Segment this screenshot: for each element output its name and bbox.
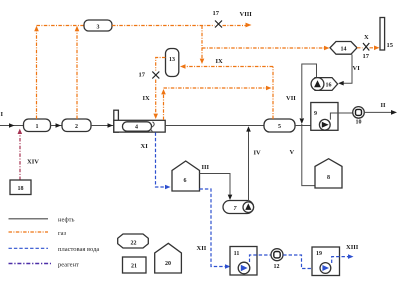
- valve 17 (mid): [139, 72, 160, 79]
- gas wire 13 outlet to valve: [156, 58, 166, 71]
- svg-text:VIII: VIII: [240, 11, 253, 18]
- svg-text:V: V: [290, 149, 295, 156]
- svg-text:I: I: [1, 111, 4, 118]
- junction arrow into 2: [56, 123, 62, 128]
- node I arrowhead: [9, 123, 15, 128]
- wire 1 to 2: [51, 125, 63, 127]
- vessel 1: [24, 119, 51, 132]
- meter 12: [271, 249, 283, 270]
- legend water line: [9, 247, 49, 249]
- junction arrow down into 4: [153, 114, 158, 119]
- gas branch wire to vessel 14: [202, 47, 325, 49]
- wire 9 outlet to 10: [330, 113, 352, 120]
- gas header wire 3 to valve 17: [112, 25, 215, 27]
- wire 16 outlet VII down to main line: [302, 64, 317, 118]
- svg-text:III: III: [202, 164, 210, 171]
- water wire XI from 4 to tank 6: [156, 133, 166, 188]
- svg-text:22: 22: [131, 241, 137, 247]
- junction arrow down: [200, 59, 205, 64]
- legend gas line: [9, 231, 49, 233]
- svg-text:VI: VI: [353, 65, 361, 72]
- svg-text:XI: XI: [141, 143, 149, 150]
- water wire XII from 6 to pump 11: [200, 189, 226, 267]
- svg-text:X: X: [364, 34, 369, 41]
- svg-text:II: II: [381, 102, 387, 109]
- water wire 12 to pump 19: [283, 255, 313, 269]
- junction arrow into 14: [324, 46, 330, 51]
- wire III from 6 to vessel 7: [200, 174, 231, 196]
- svg-text:XIII: XIII: [346, 244, 359, 251]
- legend reagent line: [9, 263, 52, 265]
- gas wire valve to flare 15: [370, 47, 375, 49]
- svg-text:1: 1: [36, 124, 39, 130]
- junction arrow down into 7: [228, 195, 233, 200]
- svg-text:11: 11: [234, 251, 240, 257]
- vessel 13: [166, 49, 179, 77]
- svg-text:19: 19: [316, 251, 322, 257]
- svg-text:3: 3: [97, 25, 100, 31]
- vessel 7 with pump: [223, 201, 254, 214]
- svg-text:6: 6: [184, 178, 187, 184]
- svg-text:4: 4: [135, 125, 138, 131]
- junction arrow into 6: [165, 185, 171, 190]
- svg-text:10: 10: [356, 120, 362, 126]
- svg-text:17: 17: [213, 10, 220, 17]
- junction arrow up into header: [34, 26, 39, 31]
- svg-text:2: 2: [75, 124, 78, 130]
- svg-text:14: 14: [341, 47, 347, 53]
- reagent block 18: [10, 180, 31, 195]
- water wire 19 outlet: [332, 257, 349, 263]
- node II arrowhead: [391, 110, 397, 115]
- wire IV from 7 up to main line: [248, 131, 250, 202]
- svg-text:13: 13: [169, 57, 175, 63]
- svg-text:20: 20: [165, 261, 171, 267]
- vessel 2: [62, 119, 91, 132]
- tank 22: [118, 234, 149, 248]
- svg-text:21: 21: [131, 264, 137, 270]
- wire 10 outlet II: [364, 111, 392, 113]
- junction arrow up into main line: [18, 129, 23, 134]
- gas drop wire from header to IX line: [201, 26, 203, 59]
- vessel 3: [84, 20, 112, 31]
- wire 2 to 4: [91, 125, 114, 127]
- svg-text:IX: IX: [216, 58, 224, 65]
- wire main line 4 to 5: [165, 125, 264, 127]
- wire stream V down to tank 8: [302, 124, 315, 186]
- junction arrow up: [161, 89, 166, 94]
- wire stream XIV (reagent): [19, 133, 21, 180]
- pump block 9: [311, 103, 353, 131]
- vessel 4 (heater-treater): [114, 110, 165, 132]
- legend oil line: [9, 218, 49, 220]
- gas riser from vessel 2: [76, 27, 78, 119]
- junction arrow into 4: [108, 123, 114, 128]
- svg-text:12: 12: [274, 264, 280, 270]
- junction arrow into 13: [180, 64, 186, 69]
- meter 10: [353, 107, 365, 126]
- svg-text:IX: IX: [143, 95, 151, 102]
- svg-text:9: 9: [314, 111, 317, 117]
- svg-text:реагент: реагент: [58, 262, 79, 269]
- junction arrow up into header: [75, 26, 80, 31]
- tank 20: [155, 243, 182, 273]
- valve 17 (top): [213, 10, 223, 28]
- gas header wire: [37, 25, 85, 27]
- svg-text:нефть: нефть: [58, 217, 74, 224]
- tank 8: [315, 159, 342, 188]
- svg-text:16: 16: [326, 83, 332, 89]
- gas wire into vessel 13: [185, 66, 273, 68]
- gas riser from vessel 4: [163, 92, 165, 120]
- node VIII arrowhead: [246, 23, 252, 28]
- flare stack 15: [380, 18, 394, 51]
- vessel 5: [264, 119, 295, 132]
- wire VI from 14 down to pump 16: [342, 55, 353, 84]
- svg-text:8: 8: [327, 175, 330, 181]
- svg-text:пластовая вода: пластовая вода: [58, 246, 99, 253]
- wire main line 5 to 9: [295, 125, 320, 127]
- junction arrow down onto main line: [300, 118, 305, 124]
- wire valve 17 to VIII: [223, 25, 247, 27]
- junction arrow right: [266, 86, 272, 91]
- water wire 11 outlet: [250, 255, 271, 262]
- pump block 19: [312, 247, 349, 276]
- svg-text:17: 17: [363, 53, 370, 60]
- block 21: [123, 257, 147, 273]
- vessel 14: [330, 42, 357, 55]
- pump 16: [311, 78, 338, 91]
- gas wire IX to riser of 5: [164, 87, 267, 89]
- junction arrow into 15: [374, 46, 380, 51]
- svg-text:XII: XII: [197, 245, 207, 252]
- tank 6: [172, 161, 200, 191]
- node XIII arrowhead: [348, 254, 354, 259]
- junction arrow into 19 pump: [313, 266, 319, 271]
- wire main oil line inlet I: [0, 125, 24, 127]
- svg-text:5: 5: [278, 124, 281, 130]
- valve 17 (right): [363, 34, 370, 60]
- pump block 11: [230, 247, 271, 276]
- gas wire valve down into vessel 4: [155, 80, 157, 114]
- svg-text:VII: VII: [286, 95, 296, 102]
- gas riser from vessel 5: [272, 67, 274, 120]
- gas wire 14 to valve 17 (right): [357, 47, 363, 49]
- svg-text:18: 18: [18, 186, 24, 192]
- junction arrow into 11: [225, 264, 231, 269]
- svg-text:17: 17: [139, 72, 146, 79]
- svg-text:XIV: XIV: [27, 159, 39, 166]
- svg-text:газ: газ: [58, 230, 67, 237]
- gas riser from vessel 1: [36, 27, 38, 119]
- junction arrow up onto main line: [246, 126, 251, 131]
- junction arrow into 16: [338, 81, 344, 86]
- svg-text:IV: IV: [254, 150, 262, 157]
- svg-text:15: 15: [387, 42, 394, 49]
